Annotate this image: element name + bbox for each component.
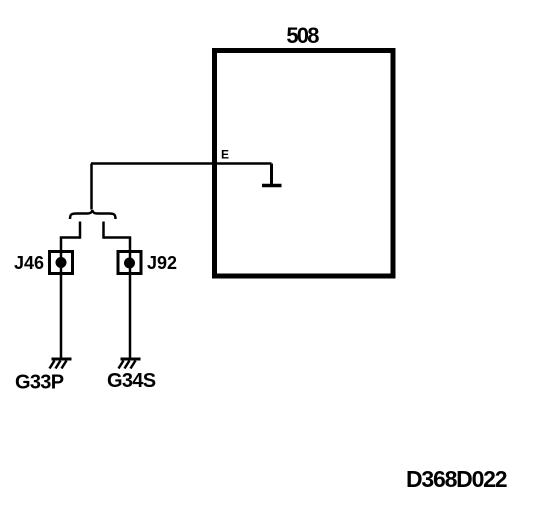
connector J46 (50, 252, 73, 274)
svg-text:508: 508 (286, 23, 319, 48)
internal ground bar (262, 184, 282, 188)
wire down to internal ground (270, 164, 273, 187)
ground G34S (119, 359, 141, 369)
svg-text:E: E (221, 148, 229, 162)
svg-text:G33P: G33P (15, 372, 64, 394)
svg-text:J46: J46 (14, 253, 44, 273)
wire left drop (60, 238, 63, 359)
component box 508 (215, 51, 394, 277)
wire right jog (104, 236, 132, 239)
wire main vertical (90, 164, 93, 210)
svg-text:J92: J92 (147, 253, 177, 273)
connector J92 (118, 252, 141, 274)
svg-text:G34S: G34S (107, 370, 156, 392)
wire right stub (102, 222, 105, 239)
wire left jog (60, 236, 80, 239)
wire right drop (129, 238, 132, 359)
svg-text:D368D022: D368D022 (406, 466, 507, 492)
wire E horizontal (91, 162, 272, 165)
wire left stub (79, 222, 82, 239)
ground G33P (50, 359, 72, 369)
splice brace (70, 210, 116, 219)
